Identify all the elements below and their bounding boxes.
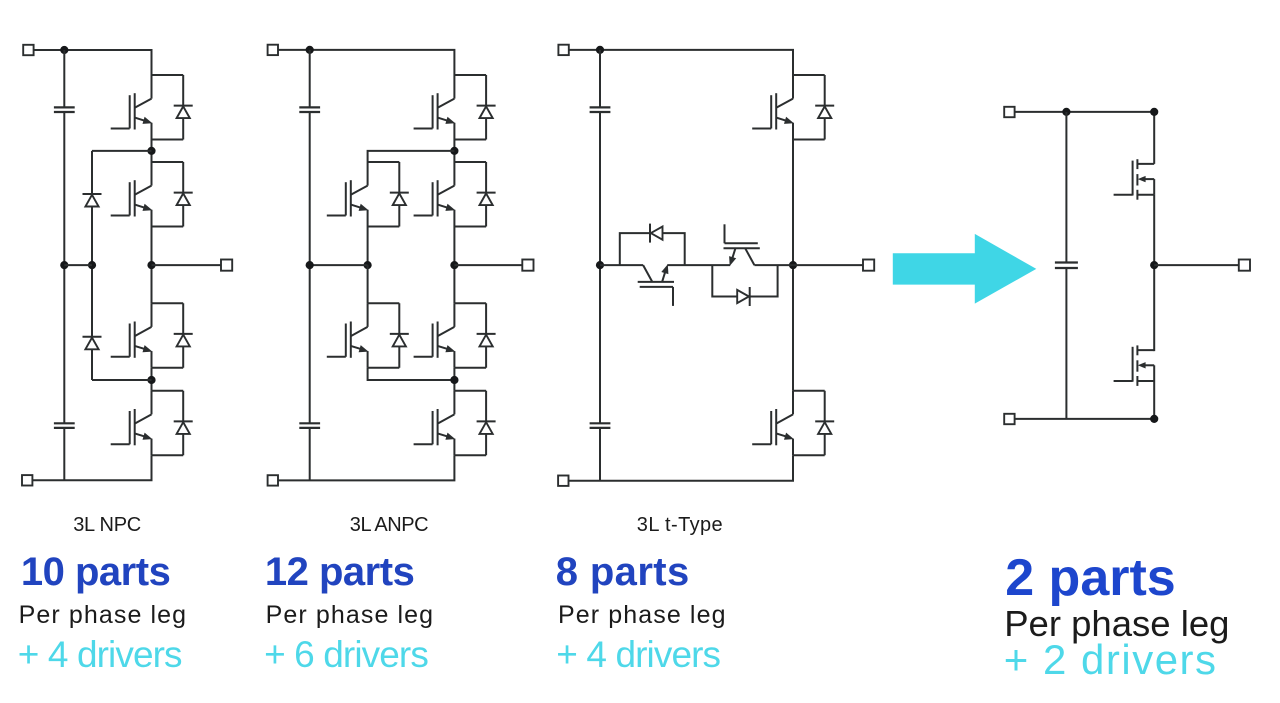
node neutral (DC-link midpoint) [60,261,68,269]
transistor Q6 (ANPC lower clamp) [327,303,399,368]
terminal DC+ (t-Type) [558,45,568,55]
transistor Q4 (ANPC) [414,391,487,456]
wire [754,264,793,266]
node J2 (ANPC Q3-Q4) [450,376,458,384]
wire [151,227,153,304]
node DC+ / C1 tap (ANPC) [306,46,314,54]
capacitor C2 (ANPC lower DC-link) [299,423,320,428]
wire [1065,268,1067,419]
transistor Q2 (NPC) [111,162,184,227]
diode D1 (freewheel Q1 t-Type) [815,75,834,140]
wire [63,112,65,423]
wire [367,265,369,303]
wire [27,455,151,480]
diode D6 (freewheel Q6) [390,303,409,368]
text + 6 drivers (ANPC) [264,636,428,673]
wire [620,233,685,265]
wire [91,151,93,380]
wire [453,368,455,391]
node J1 (ANPC Q1-Q2) [450,147,458,155]
transistor M2 (low-side FET) [1114,345,1155,386]
wire [64,264,92,266]
terminal AC out (ANPC) [522,260,533,271]
transistor Q1 (ANPC) [414,75,487,140]
wire [152,264,227,266]
wire [454,264,528,266]
wire [1154,264,1244,266]
diode D2 (freewheel Q2 ANPC) [477,162,496,227]
terminal DC+ (NPC) [23,45,33,55]
wire [599,428,601,481]
transistor Q4 (NPC) [111,391,184,456]
wire [792,140,794,391]
diode D3 (antiparallel to Q3) [737,287,750,306]
terminal DC- (t-Type) [558,476,568,486]
diode D3 (freewheel Q3) [174,303,193,368]
wire [600,264,643,266]
terminal DC+ (half-bridge) [1004,107,1014,117]
node DC+ / C1 tap [60,46,68,54]
wire [63,428,65,480]
terminal AC out (t-Type) [863,260,874,271]
text 10 parts [21,552,170,592]
wire [273,455,455,480]
text Per phase leg (ANPC) [266,603,435,628]
node neutral tap (clamp) [88,261,96,269]
capacitor C2 (NPC lower DC-link) [54,423,75,428]
wire [63,50,65,107]
label 3L NPC [73,515,141,535]
node AC output (NPC) [147,261,155,269]
wire [1009,381,1154,419]
diode D5 (freewheel Q5) [390,162,409,227]
node DC+ / C1 tap (t-Type) [596,46,604,54]
transistor Q3 (NPC) [111,303,184,368]
wire [599,50,601,108]
label 3L t-Type [637,515,723,535]
node DC+ / C tap (half-bridge) [1062,108,1070,116]
transistor Q1 (t-Type high side) [752,75,825,140]
text 8 parts [556,552,690,592]
capacitor C2 (t-Type lower DC-link) [590,423,611,428]
capacitor C1 (ANPC upper DC-link) [299,107,320,112]
text Per phase leg (t-Type) [558,603,727,628]
terminal DC- (ANPC) [268,475,278,485]
diode D1 (freewheel Q1) [174,75,193,140]
label 3L ANPC [350,515,428,535]
transistor Q4 (t-Type low side) [752,391,825,456]
transistor Q1 (NPC) [111,75,184,140]
text Per phase leg (half-bridge) [1004,606,1229,643]
wire [667,264,730,266]
wire [367,227,369,266]
transistor Q2 (ANPC) [414,162,487,227]
node J1 (Q1-Q2 junction) [147,147,155,155]
text + 4 drivers (NPC) [18,636,182,673]
transistor Q3 (ANPC) [414,303,487,368]
wire [151,368,153,391]
transistor Q5 (ANPC upper clamp) [327,162,399,227]
text + 4 drivers (t-Type) [556,636,720,673]
wire [599,112,601,423]
terminal AC out (half-bridge) [1239,260,1250,271]
terminal DC- (NPC) [22,475,32,485]
wire [712,265,777,296]
transistor Q3 (t-Type bidirectional, output side) [724,224,760,266]
wire [309,428,311,481]
wire [1065,112,1067,263]
node AC output (ANPC) [450,261,458,269]
node AC output (half-bridge) [1150,261,1158,269]
wire [368,368,455,380]
diode D1 (freewheel Q1 ANPC) [477,75,496,140]
wire [564,50,793,75]
wire [453,227,455,304]
wire [92,150,152,152]
wire [793,264,869,266]
capacitor C (DC-link, half-bridge) [1055,263,1078,269]
node DC+ rail corner [1150,108,1158,116]
diode D2 (freewheel Q2) [174,162,193,227]
capacitor C1 (NPC upper DC-link) [54,107,75,112]
wire [151,140,153,163]
text 2 parts [1005,552,1176,604]
wire [309,112,311,423]
text Per phase leg (NPC) [19,603,188,628]
text 12 parts [265,552,414,592]
diode D2 (antiparallel to Q2) [650,224,663,243]
wire [368,151,455,162]
capacitor C1 (t-Type upper DC-link) [590,107,611,112]
wire [1153,195,1155,351]
terminal DC- (half-bridge) [1004,414,1014,424]
wire [92,379,152,381]
terminal AC out (NPC) [221,260,232,271]
transistor M1 (high-side FET) [1114,159,1155,200]
diode D4 (freewheel Q4) [174,391,193,456]
diode D6 (lower clamp) [83,337,102,350]
node J2 (Q3-Q4 junction) [147,376,155,384]
node neutral (t-Type DC-link midpoint) [596,261,604,269]
wire [563,455,793,480]
text + 2 drivers (half-bridge) [1004,639,1218,681]
node DC- rail corner [1150,415,1158,423]
wire [28,50,151,75]
diode D4 (freewheel Q4 t-Type) [815,391,834,456]
big cyan arrow [893,234,1037,304]
diode D4 (freewheel Q4 ANPC) [477,391,496,456]
wire [1009,112,1154,164]
diode D5 (upper clamp) [83,194,102,207]
wire [310,264,368,266]
wire [273,50,455,75]
node neutral (ANPC DC-link midpoint) [306,261,314,269]
node neutral tap (ANPC clamp) [364,261,372,269]
node AC output (t-Type) [789,261,797,269]
diode D3 (freewheel Q3 ANPC) [477,303,496,368]
terminal DC+ (ANPC) [268,45,278,55]
transistor Q2 (t-Type bidirectional, neutral side) [638,264,674,306]
wire [309,50,311,108]
wire [453,140,455,163]
